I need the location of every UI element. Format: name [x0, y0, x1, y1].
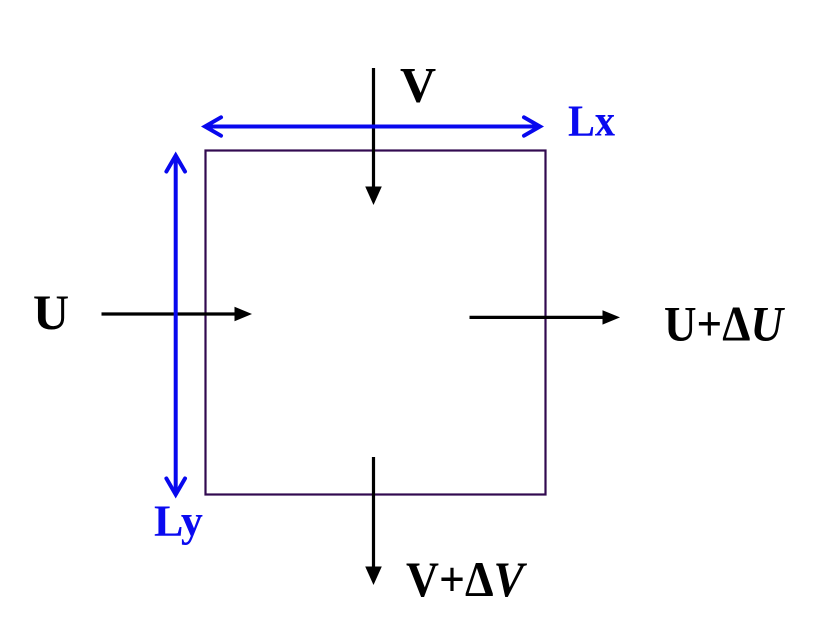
dimension arrow Ly (blue, double-headed, vertical) — [166, 156, 185, 495]
wire: inlet V arrow (top, downward) — [365, 68, 382, 205]
wire: outlet V+dV arrow (bottom, downward) — [365, 457, 382, 585]
svg-text:U+ΔU: U+ΔU — [664, 296, 786, 352]
wire: outlet U+dU arrow (right, rightward) — [470, 310, 621, 324]
svg-text:V+ΔV: V+ΔV — [406, 551, 527, 607]
svg-text:Ly: Ly — [154, 497, 203, 546]
control volume box — [206, 151, 546, 495]
dimension arrow Lx (blue, double-headed, horizontal) — [205, 117, 540, 135]
svg-text:U: U — [33, 284, 69, 340]
wire: inlet U arrow (left, rightward) — [102, 307, 253, 321]
svg-text:Lx: Lx — [568, 97, 615, 146]
svg-text:V: V — [400, 57, 436, 113]
